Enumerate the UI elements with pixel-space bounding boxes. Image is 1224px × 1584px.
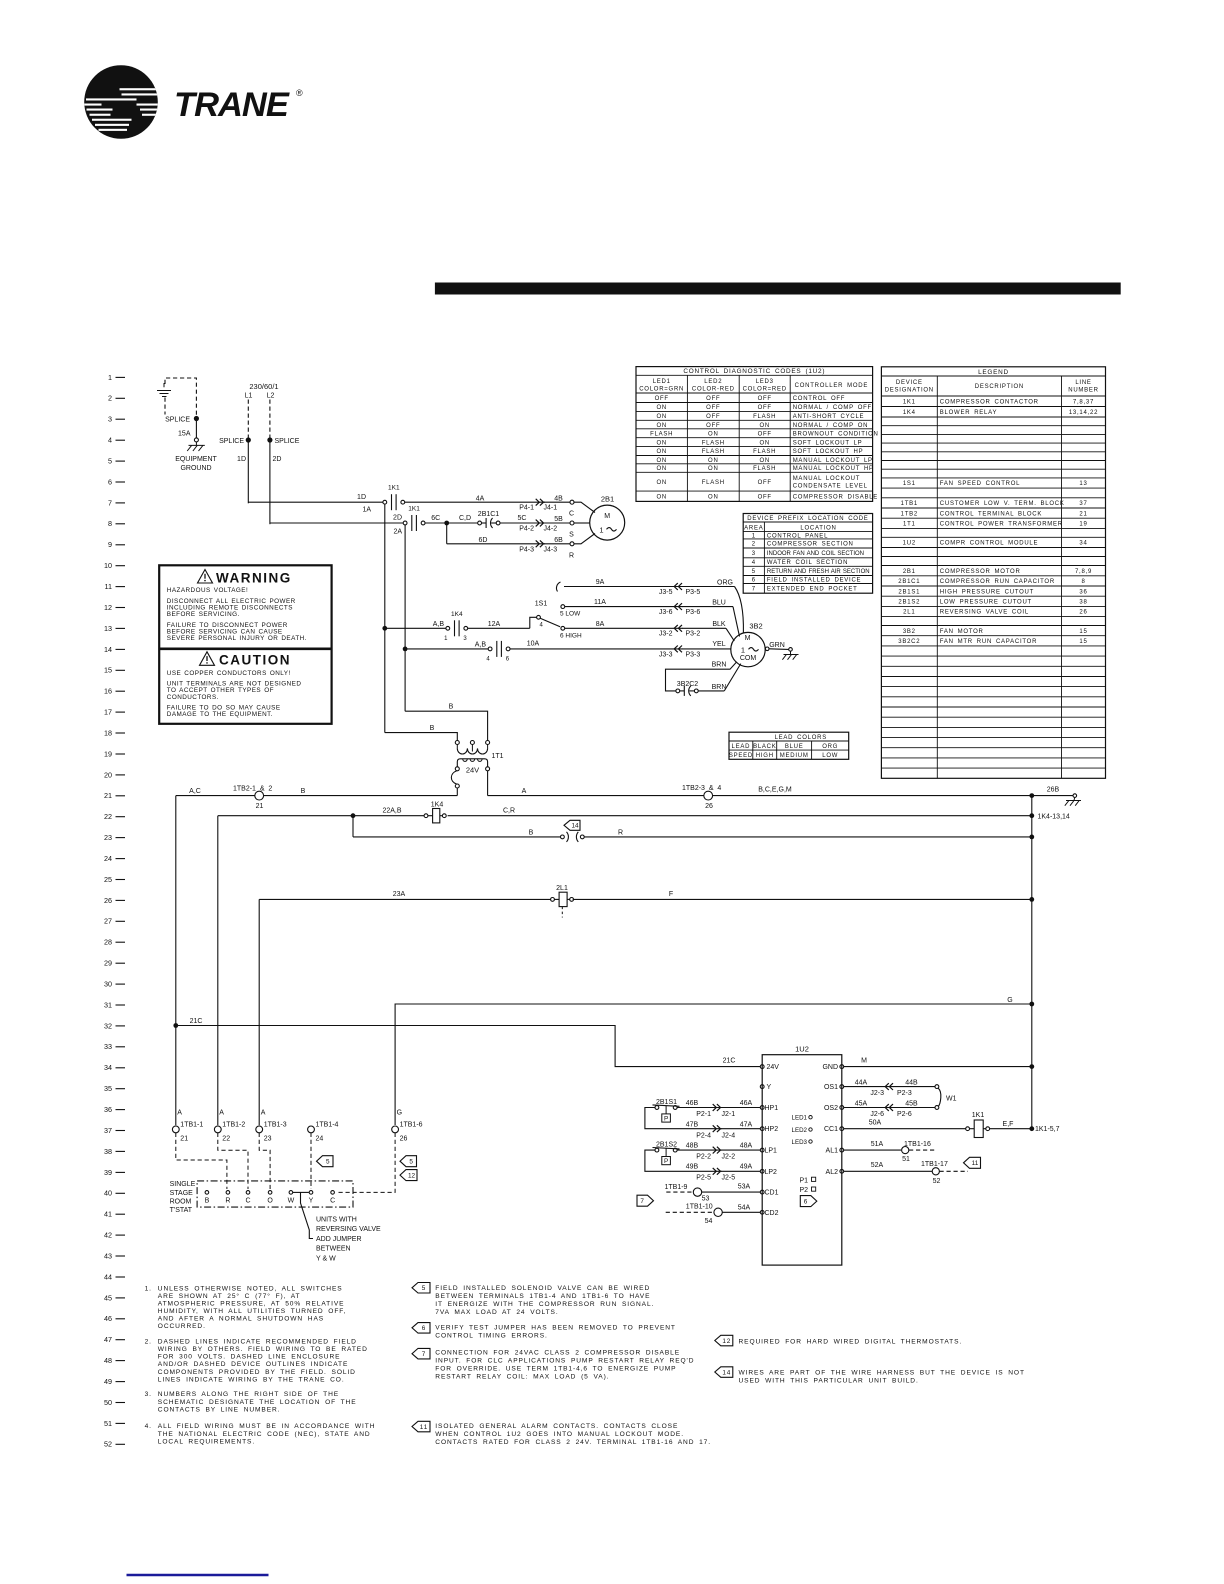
svg-text:J3-2: J3-2 [659, 631, 673, 638]
connector J3-5 P3-5 [659, 580, 735, 596]
svg-text:FLASH: FLASH [702, 440, 725, 446]
svg-text:3B2C2: 3B2C2 [677, 681, 699, 688]
Trane logo circle with swirl [84, 65, 303, 139]
svg-text:11: 11 [972, 1160, 979, 1167]
svg-text:41: 41 [104, 1210, 112, 1219]
terminal 1TB1-17 [921, 1161, 968, 1185]
wire 2D vertical [270, 440, 282, 524]
switch terminal 6 HIGH [560, 626, 582, 639]
svg-text:52A: 52A [871, 1162, 884, 1169]
equipment ground symbol [175, 442, 217, 472]
svg-text:45B: 45B [905, 1100, 918, 1107]
svg-text:1S1: 1S1 [903, 481, 916, 487]
svg-text:SPLICE: SPLICE [219, 438, 244, 445]
svg-text:ON: ON [656, 423, 667, 429]
svg-text:OFF: OFF [758, 431, 772, 437]
transformer 1T1 [451, 741, 503, 789]
wire 49B [686, 1164, 699, 1171]
svg-text:BETWEEN TERMINALS 1TB1-4 AN: BETWEEN TERMINALS 1TB1-4 AND 1TB1-6 TO H… [435, 1293, 650, 1300]
relay coil 1K1 [966, 1112, 990, 1138]
svg-text:50A: 50A [869, 1120, 882, 1127]
svg-text:46A: 46A [740, 1100, 753, 1107]
svg-text:CONTACTS BY LINE NUMBER.: CONTACTS BY LINE NUMBER. [158, 1406, 281, 1413]
svg-text:®: ® [296, 88, 303, 98]
svg-text:1TB1-2: 1TB1-2 [222, 1122, 245, 1129]
svg-text:21C: 21C [190, 1018, 203, 1025]
svg-text:31: 31 [104, 1000, 112, 1009]
svg-text:R: R [225, 1197, 230, 1204]
thermostat dashed field wiring 1TB1-4 to Y [310, 1133, 312, 1189]
svg-text:MANUAL LOCKOUT: MANUAL LOCKOUT [793, 476, 860, 482]
svg-text:4A: 4A [476, 496, 485, 503]
wire C,R to bus [448, 807, 1070, 820]
svg-text:1TB1-9: 1TB1-9 [665, 1184, 688, 1191]
svg-text:44A: 44A [855, 1079, 868, 1086]
svg-text:O: O [267, 1197, 273, 1204]
svg-text:ON: ON [656, 405, 667, 411]
connector P2-5 J2-5 [696, 1164, 760, 1182]
svg-text:A: A [219, 1110, 224, 1117]
svg-text:WHEN CONTROL 1U2 GOES INTO: WHEN CONTROL 1U2 GOES INTO MANUAL LOCKOU… [435, 1431, 684, 1438]
tag 7 flag [637, 1195, 654, 1206]
svg-text:EXTENDED END POCKET: EXTENDED END POCKET [767, 587, 858, 593]
svg-text:LINES INDICATE WIRING BY T: LINES INDICATE WIRING BY THE TRANE CO. [158, 1376, 345, 1383]
svg-text:M: M [861, 1057, 867, 1064]
svg-text:SCHEMATIC DESIGNATE THE LOC: SCHEMATIC DESIGNATE THE LOCATION OF THE [158, 1399, 357, 1406]
jumper W1 [935, 1085, 957, 1110]
contact 1K4 pins 1-3 [444, 611, 468, 642]
svg-text:USED WITH THIS PARTICULAR: USED WITH THIS PARTICULAR UNIT BUILD. [739, 1378, 919, 1385]
svg-text:10A: 10A [527, 640, 540, 647]
svg-text:C: C [569, 511, 574, 518]
svg-text:CONDENSATE LEVEL: CONDENSATE LEVEL [793, 484, 868, 490]
svg-text:AREA: AREA [744, 525, 763, 531]
svg-text:AND AFTER A NORMAL SHUTDOW: AND AFTER A NORMAL SHUTDOWN HAS [158, 1316, 324, 1323]
svg-text:1TB1-4: 1TB1-4 [316, 1122, 339, 1129]
svg-text:FLASH: FLASH [702, 449, 725, 455]
svg-text:3B2C2: 3B2C2 [898, 639, 920, 645]
compressor motor 2B1 [590, 495, 625, 541]
thermostat dashed field wiring 1TB1-1 to R [176, 1133, 227, 1189]
svg-text:9: 9 [108, 540, 112, 549]
svg-text:7: 7 [422, 1351, 426, 1358]
svg-text:2B1C1: 2B1C1 [478, 511, 500, 518]
svg-text:GROUND: GROUND [180, 465, 211, 472]
svg-text:REVERSING VALVE COIL: REVERSING VALVE COIL [940, 610, 1029, 616]
svg-text:ON: ON [708, 494, 719, 500]
motor terminal R [569, 534, 595, 560]
wire 9A with hook [556, 579, 683, 592]
svg-text:ON: ON [656, 414, 667, 420]
legend table [881, 367, 1105, 779]
svg-text:ROOM: ROOM [170, 1198, 192, 1205]
svg-text:P3-2: P3-2 [686, 631, 701, 638]
thermostat terminal R [225, 1191, 230, 1205]
svg-text:A: A [522, 788, 527, 795]
note 2 [145, 1339, 368, 1384]
svg-text:1TB1: 1TB1 [901, 501, 918, 507]
svg-text:P2-5: P2-5 [696, 1175, 711, 1182]
svg-text:DAMAGE TO THE EQUIPMENT.: DAMAGE TO THE EQUIPMENT. [167, 711, 273, 718]
svg-text:LOW PRESSURE CUTOUT: LOW PRESSURE CUTOUT [940, 600, 1032, 606]
terminal 1TB2-3 and 4 [682, 785, 721, 810]
svg-text:M: M [604, 513, 610, 520]
thermostat dashed field wiring 1TB1-3 to O [259, 1133, 270, 1189]
svg-text:P3-3: P3-3 [686, 651, 701, 658]
svg-text:1TB1-10: 1TB1-10 [686, 1204, 713, 1211]
svg-text:45: 45 [104, 1293, 112, 1302]
svg-text:1: 1 [752, 533, 756, 539]
svg-text:BLK: BLK [712, 621, 726, 628]
thermostat label SINGLE STAGE ROOM T'STAT [170, 1181, 196, 1214]
svg-text:6: 6 [506, 657, 510, 663]
wire G from 1TB1-6 to bus [395, 997, 1034, 1125]
svg-text:BETWEEN: BETWEEN [316, 1246, 351, 1253]
wire from line 22 corner to 1TB1-2 [217, 816, 219, 1125]
svg-text:OFF: OFF [706, 414, 720, 420]
svg-text:1D: 1D [237, 456, 246, 463]
svg-text:CONTACTS RATED FOR CLASS 2: CONTACTS RATED FOR CLASS 2 24V. TERMINAL… [435, 1439, 711, 1446]
svg-text:ON: ON [656, 458, 667, 464]
thermostat terminal W [288, 1191, 295, 1205]
connector J2-3 P2-3 [870, 1079, 935, 1097]
thermostat terminal O [267, 1191, 273, 1205]
svg-text:1U2: 1U2 [795, 1045, 809, 1054]
svg-text:HP2: HP2 [765, 1126, 779, 1133]
thermostat dashed field wiring 1TB1-2 to C [218, 1133, 248, 1189]
svg-text:1.: 1. [145, 1285, 152, 1292]
wire 48B [677, 1143, 721, 1151]
svg-text:3B2: 3B2 [749, 622, 762, 631]
svg-text:3: 3 [108, 415, 112, 424]
wire left vertical from line 21 to 1TB1-1 [175, 796, 177, 1126]
svg-text:OS2: OS2 [824, 1105, 838, 1112]
svg-text:J2-5: J2-5 [722, 1175, 736, 1182]
1U2 LED indicators [792, 1115, 813, 1146]
svg-text:BLU: BLU [712, 599, 726, 606]
jumper between Y and W [293, 1192, 313, 1238]
connector P2-4 J2-4 [696, 1122, 760, 1140]
svg-text:SEVERE PERSONAL INJURY OR: SEVERE PERSONAL INJURY OR DEATH. [167, 635, 307, 642]
svg-text:1TB1-1: 1TB1-1 [180, 1122, 203, 1129]
svg-text:2D: 2D [393, 515, 402, 522]
svg-text:2B1: 2B1 [903, 569, 916, 575]
svg-text:B: B [430, 725, 435, 732]
svg-text:230/60/1: 230/60/1 [249, 382, 278, 391]
svg-text:MANUAL LOCKOUT LP: MANUAL LOCKOUT LP [793, 458, 873, 464]
right vertical bus wire [1031, 796, 1033, 1129]
svg-text:CONTROL DIAGNOSTIC CODES (1: CONTROL DIAGNOSTIC CODES (1U2) [683, 368, 825, 375]
svg-text:G: G [397, 1110, 402, 1117]
svg-text:1S1: 1S1 [535, 600, 548, 607]
svg-text:DASHED LINES INDICATE RECOM: DASHED LINES INDICATE RECOMMENDED FIELD [158, 1339, 357, 1346]
svg-text:S: S [569, 531, 574, 538]
svg-text:BLOWER RELAY: BLOWER RELAY [940, 410, 997, 416]
note tag 12 [715, 1335, 962, 1346]
compressor control module 1U2 box [762, 1045, 842, 1266]
svg-text:WATER COIL SECTION: WATER COIL SECTION [767, 560, 848, 566]
svg-text:7: 7 [108, 498, 112, 507]
thermostat terminal C [245, 1191, 250, 1205]
svg-text:1TB1-16: 1TB1-16 [904, 1141, 931, 1148]
note tag 5 [412, 1283, 654, 1317]
svg-text:A,C: A,C [189, 788, 201, 795]
earth ground symbol [157, 383, 171, 397]
svg-text:LEAD: LEAD [732, 744, 751, 750]
1U2 left pins [760, 1064, 779, 1217]
svg-text:LED2: LED2 [704, 379, 722, 385]
tag 14 flag [564, 820, 580, 830]
svg-text:11: 11 [420, 1424, 428, 1431]
wire L2 dashed drop [269, 400, 271, 439]
svg-text:5: 5 [409, 1159, 413, 1166]
svg-text:LED1: LED1 [792, 1115, 808, 1122]
svg-text:2L1: 2L1 [903, 610, 915, 616]
svg-text:14: 14 [722, 1370, 731, 1377]
svg-text:OS1: OS1 [824, 1084, 838, 1091]
wire 54A to CD2 [722, 1204, 760, 1212]
svg-text:13: 13 [1079, 481, 1087, 487]
svg-text:3B2: 3B2 [903, 629, 916, 635]
svg-text:6: 6 [752, 578, 756, 584]
wire 1A vertical drop to line 13 and B wire to transformer [385, 504, 458, 740]
svg-text:HP1: HP1 [765, 1105, 779, 1112]
tag 5 flag at 1TB1-6 [400, 1156, 417, 1167]
wire 10A [510, 640, 683, 649]
svg-text:47B: 47B [686, 1122, 699, 1129]
svg-text:24V: 24V [466, 766, 479, 775]
svg-text:20: 20 [104, 770, 112, 779]
svg-text:FAN MOTOR: FAN MOTOR [940, 629, 984, 635]
svg-text:26: 26 [705, 803, 713, 810]
svg-text:21C: 21C [723, 1057, 736, 1064]
svg-text:DEVICE: DEVICE [896, 380, 923, 386]
svg-text:44: 44 [104, 1272, 112, 1281]
svg-text:USE COPPER CONDUCTORS ONLY!: USE COPPER CONDUCTORS ONLY! [167, 670, 291, 677]
svg-text:26B: 26B [1047, 787, 1060, 794]
svg-text:CONTROL TERMINAL BLOCK: CONTROL TERMINAL BLOCK [940, 511, 1042, 517]
svg-text:1T1: 1T1 [492, 753, 504, 760]
svg-text:52: 52 [104, 1440, 112, 1449]
svg-text:15A: 15A [178, 431, 191, 438]
svg-text:3: 3 [752, 551, 756, 557]
svg-text:5: 5 [752, 569, 756, 575]
svg-text:P2-2: P2-2 [696, 1154, 711, 1161]
svg-text:49A: 49A [740, 1164, 753, 1171]
svg-text:C,D: C,D [459, 515, 471, 522]
1U2 connectors P1 P2 [800, 1177, 816, 1194]
svg-text:P2-1: P2-1 [696, 1111, 711, 1118]
svg-text:WIRES ARE PART OF THE WIR: WIRES ARE PART OF THE WIRE HARNESS BUT T… [739, 1370, 1025, 1377]
svg-text:4: 4 [108, 436, 112, 445]
svg-text:W1: W1 [946, 1096, 957, 1103]
svg-text:J2-2: J2-2 [722, 1154, 736, 1161]
caution box title [200, 652, 292, 668]
svg-text:OCCURRED.: OCCURRED. [158, 1323, 206, 1330]
wire line 23 branch from line 22 [353, 816, 561, 837]
svg-text:FIELD INSTALLED DEVICE: FIELD INSTALLED DEVICE [767, 578, 861, 584]
connector J3-2 P3-2 [659, 621, 726, 638]
svg-text:21: 21 [256, 803, 264, 810]
svg-text:P2: P2 [800, 1187, 809, 1194]
wire F to bus [573, 891, 1035, 902]
svg-text:A: A [177, 1110, 182, 1117]
svg-text:DESCRIPTION: DESCRIPTION [975, 384, 1024, 390]
svg-text:48A: 48A [740, 1143, 753, 1150]
terminal 1TB1-2 [214, 1110, 245, 1143]
svg-text:1A: 1A [362, 507, 371, 514]
contact 1K4 pins 4-6 [486, 641, 510, 663]
blue footer line [127, 1574, 269, 1576]
switch terminal 5 LOW [560, 605, 581, 618]
splice dot on ground wire [165, 416, 199, 424]
svg-text:1D: 1D [357, 494, 366, 501]
svg-text:AL1: AL1 [826, 1148, 839, 1155]
svg-text:11: 11 [105, 582, 112, 591]
svg-text:P2-3: P2-3 [897, 1090, 912, 1097]
svg-text:COMPRESSOR CONTACTOR: COMPRESSOR CONTACTOR [940, 399, 1039, 405]
svg-text:15: 15 [1079, 629, 1087, 635]
note 1 [145, 1285, 347, 1330]
fuse 15A wire to equipment ground [178, 421, 198, 442]
svg-text:LOCATION: LOCATION [800, 525, 836, 531]
svg-text:NORMAL / COMP ON: NORMAL / COMP ON [793, 423, 869, 429]
harness contact (unused device, note 14) [561, 832, 585, 842]
svg-text:2D: 2D [273, 456, 282, 463]
svg-text:REQUIRED FOR HARD WIRED DI: REQUIRED FOR HARD WIRED DIGITAL THERMOST… [739, 1338, 963, 1345]
svg-text:14: 14 [571, 823, 579, 830]
svg-text:50: 50 [104, 1398, 112, 1407]
svg-text:1K4: 1K4 [431, 802, 444, 809]
note 3 [145, 1391, 357, 1413]
svg-text:15: 15 [1079, 639, 1087, 645]
svg-text:LED3: LED3 [792, 1139, 808, 1146]
device prefix location code table [743, 514, 872, 594]
thermostat dashed field wiring 1TB1-6 to C2 [336, 1133, 395, 1193]
capacitor 2B1C1 [478, 511, 500, 528]
svg-text:BRN: BRN [712, 684, 727, 691]
thermostat terminal C [330, 1191, 335, 1205]
svg-text:6: 6 [804, 1199, 808, 1206]
svg-text:8: 8 [1081, 579, 1085, 585]
svg-text:BLUE: BLUE [785, 744, 804, 750]
svg-text:FLASH: FLASH [753, 466, 776, 472]
wire BLK into fan motor [726, 628, 734, 641]
svg-text:12: 12 [722, 1338, 731, 1345]
svg-text:33: 33 [104, 1042, 112, 1051]
svg-text:ADD JUMPER: ADD JUMPER [316, 1236, 362, 1243]
svg-text:38: 38 [1079, 600, 1087, 606]
svg-text:42: 42 [104, 1231, 112, 1240]
tag 12 flag at 1TB1-6 [400, 1170, 417, 1181]
svg-text:18: 18 [104, 728, 112, 737]
svg-text:TRANE: TRANE [174, 86, 290, 124]
svg-text:5B: 5B [554, 516, 563, 523]
svg-text:8A: 8A [596, 621, 605, 628]
svg-text:2L1: 2L1 [556, 885, 568, 892]
svg-text:1K1: 1K1 [972, 1112, 985, 1119]
svg-text:7,8,9: 7,8,9 [1075, 569, 1092, 575]
power source label 230/60/1 [245, 382, 279, 400]
svg-text:J2-1: J2-1 [722, 1111, 736, 1118]
warning text [167, 587, 307, 642]
wire 2A vertical drop to line 14 and B wire to transformer [405, 525, 488, 741]
wire 2D to contact 1K1 line 8 [270, 515, 403, 536]
svg-text:OFF: OFF [706, 396, 720, 402]
svg-text:1K4-13,14: 1K4-13,14 [1038, 813, 1070, 820]
wire 50A from CC1 [844, 1120, 966, 1129]
svg-text:OFF: OFF [758, 494, 772, 500]
note 4 [145, 1423, 376, 1445]
svg-text:4: 4 [540, 623, 544, 629]
svg-text:RETURN AND FRESH AIR SECTI: RETURN AND FRESH AIR SECTION [767, 569, 870, 575]
svg-text:7,8,37: 7,8,37 [1073, 399, 1094, 405]
svg-text:P1: P1 [800, 1177, 809, 1184]
black title bar [435, 283, 1121, 295]
svg-text:32: 32 [104, 1021, 112, 1030]
wire 52A from AL2 [844, 1162, 932, 1171]
svg-text:ORG: ORG [822, 744, 838, 750]
svg-text:1K4: 1K4 [903, 410, 916, 416]
svg-text:5: 5 [108, 457, 112, 466]
terminal 1TB1-6 [392, 1110, 423, 1143]
svg-text:ON: ON [759, 423, 770, 429]
wire 44A from OS1 [844, 1079, 894, 1086]
svg-text:YEL: YEL [712, 641, 725, 648]
svg-text:22: 22 [104, 812, 112, 821]
wire E,F to bus end [990, 1121, 1060, 1133]
svg-text:COM: COM [740, 655, 757, 662]
svg-text:44B: 44B [905, 1079, 918, 1086]
svg-text:CONNECTION FOR 24VAC CLASS: CONNECTION FOR 24VAC CLASS 2 COMPRESSOR … [435, 1350, 680, 1357]
svg-text:35: 35 [104, 1084, 112, 1093]
svg-text:Y: Y [767, 1084, 772, 1091]
motor terminal C [569, 500, 595, 517]
svg-text:3.: 3. [145, 1391, 152, 1398]
svg-text:INDOOR FAN AND COIL SECTIO: INDOOR FAN AND COIL SECTION [767, 551, 864, 557]
svg-text:CONDUCTORS.: CONDUCTORS. [167, 694, 219, 701]
svg-text:24: 24 [316, 1136, 324, 1143]
svg-text:LEAD COLORS: LEAD COLORS [775, 735, 827, 741]
wire 1D vertical [237, 440, 248, 503]
svg-text:2A: 2A [393, 529, 402, 536]
svg-text:8: 8 [108, 519, 112, 528]
wire 47B [686, 1122, 699, 1129]
svg-text:OFF: OFF [758, 405, 772, 411]
svg-text:COMPRESSOR MOTOR: COMPRESSOR MOTOR [940, 569, 1021, 575]
note tag 6 [412, 1323, 676, 1340]
svg-text:1U2: 1U2 [903, 541, 916, 547]
svg-text:24V: 24V [767, 1064, 780, 1071]
svg-text:1K1-5,7: 1K1-5,7 [1035, 1126, 1060, 1133]
svg-text:6: 6 [108, 477, 112, 486]
svg-text:C,R: C,R [503, 807, 515, 814]
connector J3-3 P3-3 [659, 641, 731, 659]
wire B to transformer secondary [264, 788, 458, 796]
svg-text:54A: 54A [738, 1204, 751, 1211]
svg-text:STAGE: STAGE [170, 1190, 194, 1197]
svg-text:SOFT LOCKOUT LP: SOFT LOCKOUT LP [793, 440, 863, 446]
svg-text:CONTROL POWER TRANSFORMER: CONTROL POWER TRANSFORMER [940, 522, 1063, 528]
connector P4-1 J4-1 [519, 496, 570, 512]
svg-text:ON: ON [656, 440, 667, 446]
svg-text:45A: 45A [855, 1100, 868, 1107]
svg-text:SPLICE: SPLICE [165, 417, 190, 424]
svg-text:21: 21 [104, 791, 112, 800]
terminal 1TB2-1 and 2 [233, 786, 272, 811]
svg-text:ISOLATED GENERAL ALARM CONT: ISOLATED GENERAL ALARM CONTACTS. CONTACT… [435, 1423, 678, 1430]
svg-text:MANUAL LOCKOUT HP: MANUAL LOCKOUT HP [793, 466, 874, 472]
